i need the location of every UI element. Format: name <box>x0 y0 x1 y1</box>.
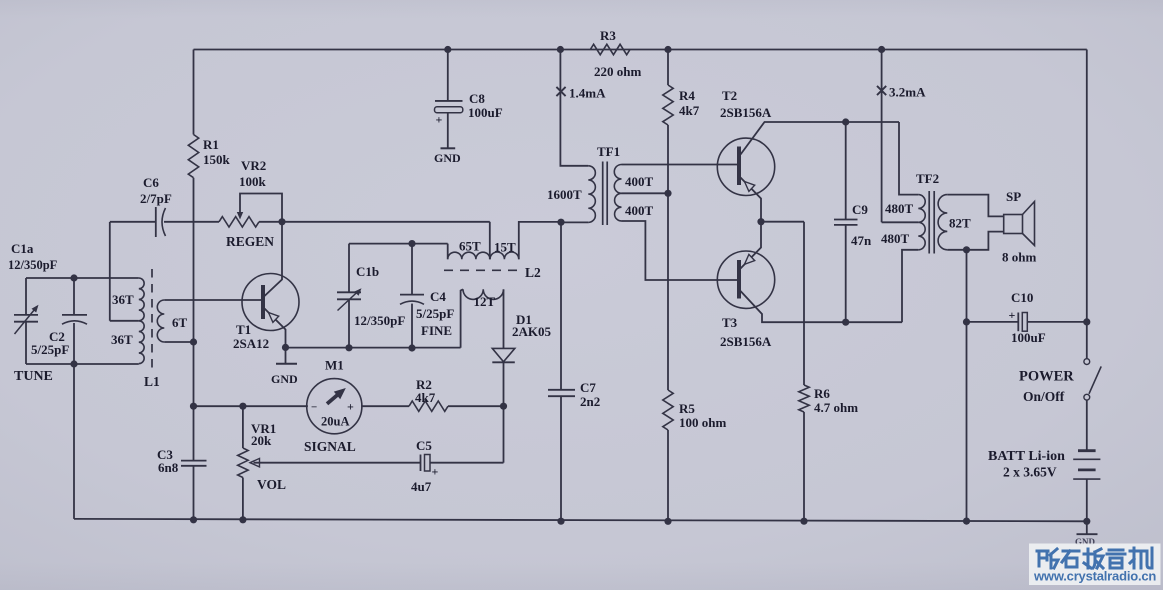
svg-text:REGEN: REGEN <box>226 234 274 249</box>
svg-text:2/7pF: 2/7pF <box>140 191 172 206</box>
wire tank to ground rail <box>73 364 75 519</box>
inductor L2 12T winding <box>463 289 504 299</box>
wire T1 collector <box>265 222 283 296</box>
svg-text:3.2mA: 3.2mA <box>889 85 926 100</box>
svg-text:2SA12: 2SA12 <box>233 336 269 351</box>
svg-text:TF2: TF2 <box>916 171 939 186</box>
svg-text:2n2: 2n2 <box>580 394 600 409</box>
svg-text:100uF: 100uF <box>1011 330 1046 345</box>
wire R1 bottom / bias vertical <box>193 178 195 460</box>
svg-text:TF1: TF1 <box>597 144 620 159</box>
svg-text:VOL: VOL <box>257 477 286 492</box>
svg-text:12/350pF: 12/350pF <box>354 313 405 328</box>
inductor L2 65T winding <box>447 244 449 260</box>
wire T3 emitter <box>741 222 762 269</box>
svg-text:C1a: C1a <box>11 241 34 256</box>
svg-text:C4: C4 <box>430 289 446 304</box>
transistor T1 <box>242 274 299 331</box>
wire meter bus <box>194 405 308 407</box>
svg-text:6n8: 6n8 <box>158 460 179 475</box>
capacitor C3 <box>181 460 207 462</box>
svg-text:L1: L1 <box>144 374 160 389</box>
wire T2 emitter <box>741 178 762 222</box>
wire 6T bottom to bias line <box>164 341 193 343</box>
wire TF1 sec bottom to T3 base <box>622 221 738 280</box>
svg-text:100 ohm: 100 ohm <box>679 415 726 430</box>
svg-text:C1b: C1b <box>356 264 379 279</box>
wire TF2 sec bottom to speaker <box>947 232 1003 250</box>
svg-text:2SB156A: 2SB156A <box>720 334 772 349</box>
svg-text:4u7: 4u7 <box>411 479 432 494</box>
wire T1 emitter <box>265 309 286 348</box>
wire 15T to TF1 <box>519 222 561 259</box>
svg-text:20k: 20k <box>251 433 272 448</box>
TF2 core <box>928 191 930 254</box>
current mark 1.4mA <box>556 87 565 96</box>
svg-text:R6: R6 <box>814 386 830 401</box>
wire detector bus <box>286 347 461 349</box>
switch POWER On/Off <box>1084 359 1090 365</box>
svg-text:T1: T1 <box>236 322 251 337</box>
potentiometer VR2 <box>219 217 259 227</box>
inductor L1 36T upper winding <box>139 278 144 321</box>
ground bottom right <box>1086 521 1088 534</box>
svg-text:SP: SP <box>1006 189 1021 204</box>
svg-text:15T: 15T <box>494 240 516 255</box>
wire TF2 center tap <box>882 221 919 223</box>
wire TF1 primary bottom <box>561 221 588 223</box>
wire T3 collector <box>741 291 903 322</box>
wire tank top <box>26 277 139 279</box>
inductor L1 36T lower winding <box>139 321 144 364</box>
svg-text:C9: C9 <box>852 202 868 217</box>
resistor R2 <box>409 401 448 411</box>
svg-text:100k: 100k <box>239 174 267 189</box>
capacitor C4 <box>411 244 413 295</box>
svg-text:12T: 12T <box>474 294 496 309</box>
potentiometer VR1 <box>242 406 244 448</box>
svg-text:1.4mA: 1.4mA <box>569 86 606 101</box>
svg-text:36T: 36T <box>112 292 134 307</box>
diode D1 2AK05 <box>503 290 505 349</box>
wire VR1 wiper to C5 <box>254 462 421 464</box>
wire R5 bottom <box>667 430 669 521</box>
watermark chinese text <box>1037 548 1152 568</box>
watermark box <box>1029 544 1161 586</box>
svg-text:VR2: VR2 <box>241 158 266 173</box>
svg-text:T2: T2 <box>722 88 737 103</box>
svg-text:5/25pF: 5/25pF <box>31 342 69 357</box>
svg-text:R1: R1 <box>203 137 219 152</box>
svg-text:www.crystalradio.cn: www.crystalradio.cn <box>1033 569 1156 584</box>
svg-text:2 x 3.65V: 2 x 3.65V <box>1003 465 1057 480</box>
wire L2 tap <box>489 222 491 259</box>
wire R2 to D1 node <box>448 405 504 407</box>
svg-text:2SB156A: 2SB156A <box>720 105 772 120</box>
transformer TF2 primary 480T upper <box>918 195 925 223</box>
wire speaker return <box>966 250 968 521</box>
svg-text:BATT Li-ion: BATT Li-ion <box>988 449 1065 464</box>
svg-text:GND: GND <box>434 151 461 165</box>
svg-text:6T: 6T <box>172 315 188 330</box>
wire meter to R2 <box>361 405 409 407</box>
svg-text:100uF: 100uF <box>468 105 503 120</box>
svg-text:8 ohm: 8 ohm <box>1002 250 1036 265</box>
capacitor C1a (variable) <box>25 278 27 315</box>
wire R4 bottom to center tap to R5 <box>667 125 669 390</box>
capacitor C6 <box>110 221 156 223</box>
svg-text:C8: C8 <box>469 91 485 106</box>
transformer TF1 secondary 400T upper <box>614 165 621 194</box>
svg-text:4.7 ohm: 4.7 ohm <box>814 400 858 415</box>
svg-text:C6: C6 <box>143 175 159 190</box>
svg-text:480T: 480T <box>881 231 910 246</box>
wire bottom ground rail <box>74 519 1087 521</box>
capacitor C5 <box>420 455 422 472</box>
wire R1 top lead <box>193 50 195 135</box>
transformer TF2 secondary 82T <box>938 195 947 250</box>
svg-text:12/350pF: 12/350pF <box>8 258 58 272</box>
svg-text:220 ohm: 220 ohm <box>594 64 641 79</box>
wire battery to ground rail <box>1086 479 1088 521</box>
wire TF2 sec top to speaker <box>947 195 1003 217</box>
TF1 core <box>602 162 604 226</box>
svg-text:+: + <box>436 113 443 127</box>
svg-text:65T: 65T <box>459 239 481 254</box>
svg-text:1600T: 1600T <box>547 187 582 202</box>
current mark 3.2mA <box>881 50 883 223</box>
wire regen line to L2 tap <box>259 221 282 223</box>
transistor T3 <box>717 251 774 308</box>
resistor R3 <box>590 44 630 54</box>
resistor R1 <box>188 135 198 178</box>
svg-text:4k7: 4k7 <box>415 390 436 405</box>
capacitor C10 <box>967 321 1019 323</box>
wire C3 bottom lead <box>193 466 195 520</box>
svg-text:4k7: 4k7 <box>679 103 700 118</box>
svg-text:150k: 150k <box>203 152 231 167</box>
svg-text:47n: 47n <box>851 233 872 248</box>
wire right rail (upper) <box>1086 50 1088 359</box>
svg-text:+: + <box>1009 308 1016 322</box>
svg-text:GND: GND <box>271 372 298 386</box>
L1 core (dashed) <box>151 269 153 369</box>
L2 core (dashed) <box>444 269 523 271</box>
svg-text:36T: 36T <box>111 332 133 347</box>
inductor L1 6T winding <box>157 300 164 342</box>
svg-text:SIGNAL: SIGNAL <box>304 439 356 454</box>
resistor R4 <box>663 85 673 125</box>
ground at T1 emitter <box>285 347 287 363</box>
svg-text:R5: R5 <box>679 401 695 416</box>
capacitor C9 <box>845 122 847 219</box>
wire switch to battery <box>1086 400 1088 450</box>
svg-text:400T: 400T <box>625 174 654 189</box>
wire T2 collector <box>741 122 900 155</box>
capacitor C2 <box>73 278 75 315</box>
wire R4 top <box>667 50 669 86</box>
battery BATT Li-ion <box>1078 449 1096 452</box>
svg-text:L2: L2 <box>525 265 541 280</box>
svg-text:20uA: 20uA <box>321 415 349 429</box>
svg-text:FINE: FINE <box>421 323 452 338</box>
resistor R6 <box>803 222 805 385</box>
speaker SP <box>1004 215 1023 234</box>
resistor R5 <box>663 390 673 430</box>
capacitor C1b (variable) <box>348 244 350 292</box>
wire top supply rail <box>194 49 1087 51</box>
wire C1b/C4 top bus <box>349 243 448 245</box>
wire TF1 primary top feed <box>560 50 588 166</box>
wire L1 center tap to C6 <box>110 320 139 322</box>
svg-text:+: + <box>432 465 439 479</box>
transformer TF1 primary 1600T <box>588 166 595 223</box>
ground at C8 <box>441 147 456 149</box>
svg-text:C10: C10 <box>1011 290 1033 305</box>
meter M1 <box>307 379 362 434</box>
wire TF1 sec center tap <box>622 192 669 194</box>
capacitor C7 <box>560 222 562 389</box>
svg-text:POWER: POWER <box>1019 369 1074 385</box>
transformer TF2 primary 480T lower <box>918 222 925 250</box>
wire TF2 primary top feed <box>899 122 918 195</box>
wire 6T top to T1 base <box>164 299 261 301</box>
svg-text:400T: 400T <box>625 203 654 218</box>
svg-text:R4: R4 <box>679 88 695 103</box>
svg-text:480T: 480T <box>885 201 914 216</box>
wire TF1 sec top to T2 base <box>622 164 738 166</box>
svg-text:R3: R3 <box>600 28 616 43</box>
transformer TF1 secondary 400T lower <box>615 193 622 221</box>
svg-text:C5: C5 <box>416 438 432 453</box>
inductor L2 15T winding <box>490 252 519 259</box>
svg-text:C7: C7 <box>580 380 596 395</box>
svg-text:TUNE: TUNE <box>14 369 53 384</box>
svg-text:82T: 82T <box>949 216 971 231</box>
transistor T2 <box>717 138 774 195</box>
svg-text:On/Off: On/Off <box>1023 389 1065 404</box>
capacitor C8 <box>447 50 449 101</box>
svg-text:+: + <box>347 400 354 414</box>
wire tank bottom <box>26 363 139 365</box>
svg-text:T3: T3 <box>722 315 738 330</box>
wire TF2 primary bottom <box>902 250 918 322</box>
wire C5 to D1 node <box>430 462 504 464</box>
svg-text:2AK05: 2AK05 <box>512 324 552 339</box>
svg-text:−: − <box>311 402 317 414</box>
svg-text:5/25pF: 5/25pF <box>416 306 454 321</box>
svg-text:M1: M1 <box>325 358 344 373</box>
wire emitter junction to R6 <box>757 218 764 225</box>
